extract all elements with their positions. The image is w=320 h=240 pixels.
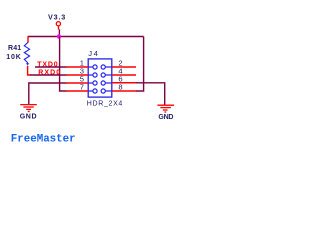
connector J4 body box (blue) [88,59,112,97]
power symbol V3.3 circle [56,22,60,26]
resistor R41 bottom junction diamond (blue) [26,62,30,66]
junction at rail / vertical [57,34,61,38]
resistor R41 top pin (red) [27,36,29,42]
pin 5 circles [88,82,93,84]
connector pin circles (blue) with inner stubs [88,65,112,93]
wire pin5 to left GND [29,83,67,104]
pin 6 stub (red) [112,82,137,84]
pin 7 stub (red) [66,90,88,92]
svg-text:HDR_2X4: HDR_2X4 [87,100,123,107]
svg-text:GND: GND [20,114,37,121]
wire pin6 to right GND [136,83,165,105]
wire RXD0 to pin3 [30,74,67,76]
pin 7 circles [88,90,93,92]
pin 8 stub (red) [112,90,137,92]
wire V3.3 horizontal rail [28,36,144,38]
pin 3 stub (red) [66,74,88,76]
pin 5 stub (red) [66,82,88,84]
svg-text:V3.3: V3.3 [48,13,65,22]
power symbol pin (red) [58,26,60,30]
pin 3 circles [88,74,93,76]
svg-text:FreeMaster: FreeMaster [11,133,76,145]
right ground symbol bars [157,105,174,112]
pin 1 circles [88,66,93,68]
svg-text:R41: R41 [8,45,21,52]
svg-text:GND: GND [158,114,173,121]
resistor R41 bottom pin (red) going down and right to RXD0 wire [28,66,31,75]
wire vertical V3.3 to pin7 row [60,37,67,92]
svg-text:7: 7 [80,83,84,92]
svg-text:10K: 10K [6,54,20,61]
svg-text:8: 8 [118,83,122,92]
left ground symbol bars [20,105,37,112]
pin 1 stub (red) [66,66,88,68]
wire from power pin down to rail [58,29,60,36]
wire TXD0 to pin1 [35,66,67,68]
pin 2 stub (red) [112,66,136,68]
resistor R41 zigzag body (blue) [24,42,29,62]
wire vertical V3.3 right side down to pin8 [136,37,144,92]
pin 4 stub (red) [112,74,136,76]
svg-text:J4: J4 [88,49,98,58]
